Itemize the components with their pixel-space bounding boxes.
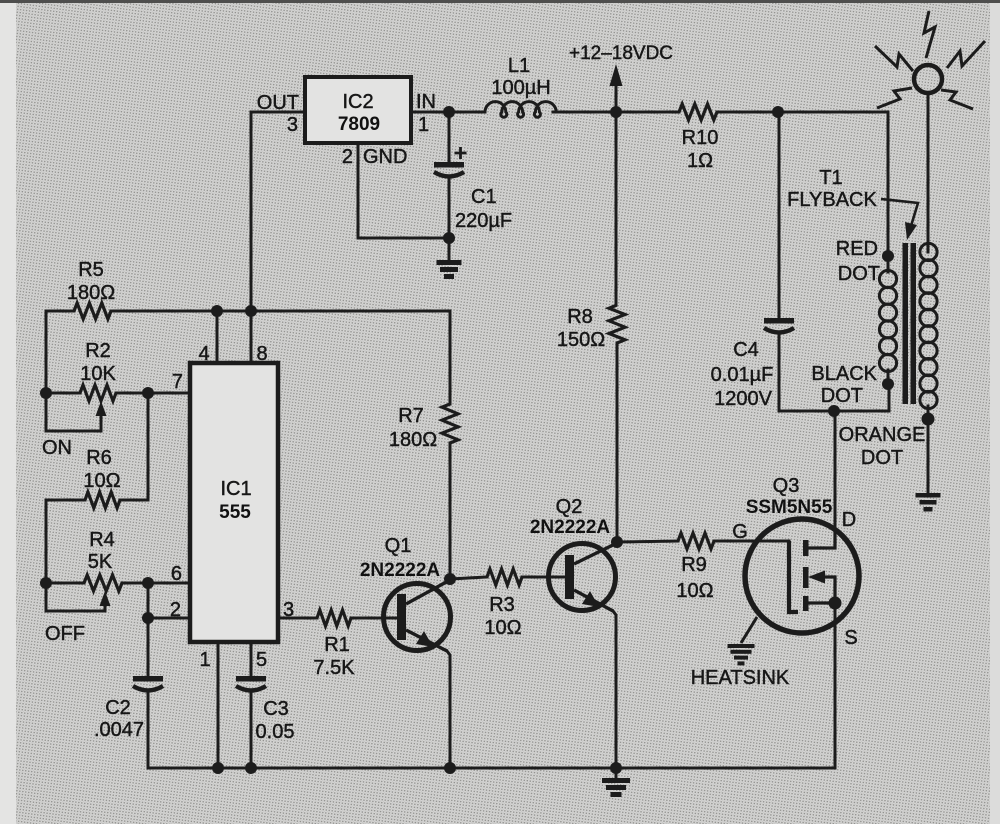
spark arrow upper-right bbox=[947, 41, 985, 68]
svg-text:C2: C2 bbox=[105, 697, 131, 719]
wire Q2 collector to R9 bbox=[617, 541, 678, 542]
svg-text:10Ω: 10Ω bbox=[676, 580, 713, 602]
svg-text:GND: GND bbox=[363, 146, 407, 168]
node Q3 source dot bbox=[829, 597, 842, 610]
wire L1 to supply node bbox=[553, 111, 679, 114]
svg-text:7809: 7809 bbox=[338, 114, 380, 135]
svg-text:D: D bbox=[842, 509, 856, 531]
resistor R9 bbox=[678, 533, 714, 549]
R4 wiper arrow OFF bbox=[104, 603, 107, 611]
svg-text:10Ω: 10Ω bbox=[83, 470, 120, 492]
node R4 left junction bbox=[40, 577, 52, 589]
wire R8 bottom bbox=[616, 343, 619, 542]
wire primary top stub bbox=[887, 252, 890, 272]
svg-text:IC1: IC1 bbox=[220, 478, 251, 500]
resistor R5 bbox=[74, 303, 111, 319]
wire secondary to ground bbox=[927, 406, 930, 493]
R2 wiper arrow ON bbox=[100, 413, 103, 431]
svg-text:C1: C1 bbox=[471, 186, 497, 208]
svg-text:0.05: 0.05 bbox=[256, 721, 295, 743]
svg-text:R5: R5 bbox=[78, 259, 104, 281]
Q3 channel dashes bbox=[803, 540, 809, 611]
node pin7 junction bbox=[142, 387, 154, 399]
wire R10 to primary top bbox=[717, 112, 888, 252]
resistor R8 bbox=[609, 305, 625, 343]
svg-text:1: 1 bbox=[418, 114, 429, 136]
resistor R3 bbox=[487, 569, 522, 585]
svg-text:.0047: .0047 bbox=[94, 719, 144, 741]
capacitor C4 plates bbox=[764, 318, 794, 324]
node pin2 junction bbox=[142, 612, 154, 624]
node pin1 bus junction bbox=[212, 762, 224, 774]
svg-text:R3: R3 bbox=[489, 594, 515, 616]
svg-text:FLYBACK: FLYBACK bbox=[787, 189, 877, 211]
node Q3 drain junction bbox=[828, 405, 840, 417]
svg-text:C4: C4 bbox=[733, 339, 759, 361]
wire pin 4 bbox=[216, 311, 219, 363]
wire C1 ground stem bbox=[448, 238, 451, 260]
svg-text:IN: IN bbox=[416, 91, 436, 113]
wire pin 2 bbox=[148, 617, 190, 620]
svg-text:Q2: Q2 bbox=[556, 496, 583, 518]
T1 secondary winding bbox=[920, 243, 937, 260]
svg-text:R8: R8 bbox=[567, 306, 593, 328]
spark arrow lower-right bbox=[941, 90, 973, 109]
wire C1 top bbox=[448, 112, 451, 162]
wire OUT pin3 of IC2 bbox=[251, 112, 305, 311]
svg-text:2N2222A: 2N2222A bbox=[530, 517, 611, 538]
wire C3 bottom bbox=[250, 693, 253, 768]
capacitor C1 plates bbox=[434, 162, 464, 168]
T1 core bbox=[903, 243, 909, 404]
wire R6 right riser bbox=[120, 393, 148, 500]
node supply junction bbox=[610, 106, 622, 118]
node Q2 emitter bus junction bbox=[610, 762, 622, 774]
regulator IC2 box bbox=[305, 77, 411, 143]
Q3 drain stub bbox=[808, 528, 835, 548]
svg-text:R6: R6 bbox=[86, 447, 112, 469]
svg-text:BLACK: BLACK bbox=[811, 363, 877, 385]
svg-text:R1: R1 bbox=[324, 634, 350, 656]
svg-text:3: 3 bbox=[283, 599, 294, 621]
svg-text:ORANGE: ORANGE bbox=[839, 424, 926, 446]
capacitor C3 plates bbox=[236, 676, 266, 682]
T1 primary winding bbox=[879, 270, 896, 287]
svg-text:180Ω: 180Ω bbox=[389, 429, 437, 451]
ground below bus bbox=[602, 778, 630, 797]
resistor R10 bbox=[679, 104, 717, 120]
wire Q2 emitter down bbox=[613, 611, 616, 768]
svg-text:10Ω: 10Ω bbox=[484, 617, 521, 639]
node black dot marker bbox=[882, 378, 894, 390]
svg-text:S: S bbox=[844, 627, 857, 649]
svg-text:2: 2 bbox=[170, 599, 181, 621]
svg-text:ON: ON bbox=[42, 437, 72, 459]
wire pin 3 bbox=[278, 617, 317, 620]
resistor R1 bbox=[317, 610, 351, 626]
wire left column upper bbox=[46, 311, 101, 431]
wire R9 to Q3 gate bbox=[714, 540, 789, 543]
svg-text:R9: R9 bbox=[681, 554, 707, 576]
svg-text:5: 5 bbox=[256, 649, 267, 671]
svg-text:RED: RED bbox=[836, 238, 878, 260]
svg-text:555: 555 bbox=[219, 502, 251, 523]
svg-text:OFF: OFF bbox=[45, 623, 85, 645]
node red dot marker bbox=[882, 250, 894, 262]
svg-text:7.5K: 7.5K bbox=[313, 657, 355, 679]
wire R4 to pin6 bbox=[122, 582, 190, 585]
node orange dot marker bbox=[922, 413, 935, 426]
node R2 left junction bbox=[40, 387, 52, 399]
wire pin6 to pin2 link bbox=[147, 583, 150, 618]
svg-text:150Ω: 150Ω bbox=[557, 329, 605, 351]
wire R2 to pin7 bbox=[116, 392, 190, 395]
wire R1 to Q1 base bbox=[351, 617, 397, 620]
node C3 bus junction bbox=[245, 762, 257, 774]
wire C4 bottom bbox=[779, 335, 889, 411]
resistor R6 bbox=[85, 492, 120, 508]
wire R3 to Q2 base bbox=[522, 576, 565, 579]
svg-text:10K: 10K bbox=[80, 363, 116, 385]
wire Q3 source down bbox=[834, 603, 837, 768]
svg-text:1: 1 bbox=[199, 649, 210, 671]
svg-text:+12–18VDC: +12–18VDC bbox=[569, 43, 673, 64]
wire pin 5 top bbox=[250, 642, 253, 676]
node C1 ground junction bbox=[443, 232, 455, 244]
svg-text:180Ω: 180Ω bbox=[67, 282, 115, 304]
spark arrow lower-left bbox=[877, 88, 912, 108]
wire pin 1 bbox=[217, 642, 220, 768]
spark gap ball bbox=[914, 65, 942, 93]
wire OFF loop bbox=[46, 583, 105, 611]
wire R6 left bbox=[46, 500, 85, 583]
wire IN pin1 of IC2 bbox=[411, 111, 485, 114]
ground heatsink bbox=[728, 644, 755, 665]
svg-text:100µH: 100µH bbox=[491, 77, 550, 99]
wire R8 top bbox=[615, 112, 618, 305]
T1 pointer arrowhead bbox=[905, 222, 917, 240]
Q3 body arrow bbox=[822, 577, 835, 603]
svg-text:R10: R10 bbox=[682, 127, 719, 149]
spark bolt top bbox=[924, 11, 935, 58]
node Q1 collector junction bbox=[444, 573, 456, 585]
node pin6 junction bbox=[142, 577, 154, 589]
svg-text:0.01µF: 0.01µF bbox=[711, 364, 774, 386]
svg-text:R7: R7 bbox=[398, 405, 424, 427]
wire bus R5 to R7 corner bbox=[111, 311, 450, 404]
svg-text:T1: T1 bbox=[819, 167, 842, 189]
resistor R2 bbox=[80, 385, 116, 401]
svg-text:Q3: Q3 bbox=[773, 475, 800, 497]
svg-text:3: 3 bbox=[287, 114, 298, 136]
svg-text:DOT: DOT bbox=[861, 447, 903, 469]
Q3 source stub bbox=[808, 601, 835, 604]
wire Q3 drain up bbox=[834, 411, 837, 528]
node IN junction bbox=[443, 106, 455, 118]
wire R7 bottom bbox=[449, 443, 452, 579]
svg-text:220µF: 220µF bbox=[455, 210, 512, 232]
transistor Q1 bbox=[384, 584, 451, 651]
Q3 heatsink lead bbox=[741, 617, 757, 643]
T1 pointer line bbox=[881, 199, 918, 226]
mosfet Q3 body circle bbox=[745, 519, 859, 633]
svg-text:DOT: DOT bbox=[821, 385, 863, 407]
ground below C1 bbox=[437, 260, 462, 279]
inductor L1 bbox=[485, 102, 556, 118]
resistor R7 bbox=[442, 404, 458, 443]
wire pin 8 bbox=[250, 311, 253, 363]
svg-text:SSM5N55: SSM5N55 bbox=[746, 497, 833, 518]
node pin8 bus junction bbox=[245, 305, 257, 317]
node pin4 bus junction bbox=[211, 305, 223, 317]
wire C2 top bbox=[147, 618, 150, 676]
svg-text:OUT: OUT bbox=[257, 92, 299, 114]
wire Q1 emitter down bbox=[447, 651, 450, 768]
svg-text:R2: R2 bbox=[85, 340, 111, 362]
capacitor C1 plus sign bbox=[455, 147, 467, 159]
svg-text:R4: R4 bbox=[89, 529, 115, 551]
node Q1 emitter bus junction bbox=[444, 762, 456, 774]
svg-text:Q1: Q1 bbox=[385, 535, 412, 557]
capacitor C2 plates bbox=[133, 676, 163, 682]
wire C2 bottom and ground bus bbox=[148, 693, 835, 768]
svg-text:6: 6 bbox=[171, 563, 182, 585]
wire supply arrow stem bbox=[615, 84, 618, 112]
svg-text:2: 2 bbox=[342, 146, 353, 168]
svg-text:L1: L1 bbox=[508, 55, 530, 77]
ground below secondary bbox=[916, 493, 941, 512]
svg-text:1Ω: 1Ω bbox=[687, 150, 713, 172]
Q3 gate electrode bbox=[789, 541, 798, 612]
wire C4 top bbox=[778, 112, 781, 318]
svg-text:G: G bbox=[732, 521, 748, 543]
wire R2 left stub bbox=[46, 392, 80, 395]
wire GND pin2 of IC2 bbox=[358, 143, 443, 238]
svg-text:2N2222A: 2N2222A bbox=[360, 560, 441, 581]
supply arrowhead bbox=[610, 64, 623, 86]
svg-text:7: 7 bbox=[172, 371, 183, 393]
node Q2 collector junction bbox=[611, 536, 623, 548]
wire C1 bottom bbox=[448, 179, 451, 238]
node C4 top junction bbox=[772, 106, 784, 118]
wire R4 left stub bbox=[46, 582, 84, 585]
timer IC1 box bbox=[190, 363, 278, 642]
wire primary bottom stub bbox=[887, 370, 890, 384]
svg-text:1200V: 1200V bbox=[714, 388, 772, 410]
wire ground stem center bbox=[615, 768, 618, 778]
resistor R4 bbox=[84, 575, 122, 591]
svg-text:5K: 5K bbox=[88, 551, 113, 573]
wire ball to secondary bbox=[927, 93, 930, 252]
svg-text:IC2: IC2 bbox=[342, 91, 373, 113]
svg-text:DOT: DOT bbox=[838, 263, 880, 285]
wire Q1 collector to R3 bbox=[450, 577, 487, 579]
spark arrow upper-left bbox=[875, 46, 913, 71]
svg-text:C3: C3 bbox=[263, 698, 289, 720]
wire top bus left bbox=[46, 310, 74, 313]
svg-text:HEATSINK: HEATSINK bbox=[691, 667, 790, 689]
transistor Q2 bbox=[549, 544, 616, 611]
